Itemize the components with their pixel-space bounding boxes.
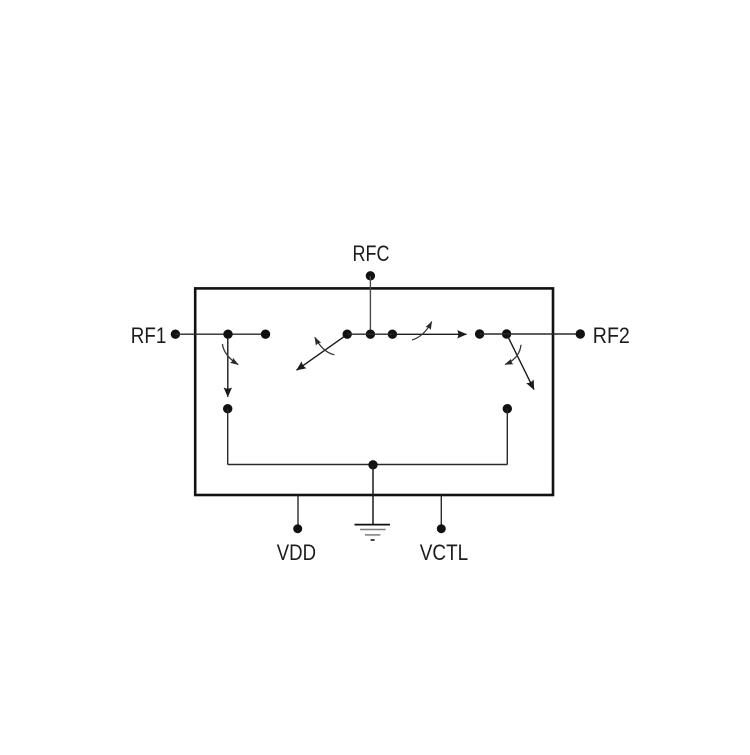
svg-text:RFC: RFC	[353, 241, 390, 266]
center-left switch arm open	[297, 334, 348, 370]
left series contact dot	[261, 330, 270, 339]
ground bus node dot	[368, 460, 377, 469]
wire right junction to RF2	[480, 333, 581, 335]
wire RF1 to left contact	[175, 333, 265, 335]
right contact dot	[475, 329, 484, 338]
wire left shunt to ground bus	[227, 409, 229, 465]
VDD pin wire	[297, 496, 299, 529]
right series switch arm open	[507, 334, 534, 390]
VCTL pin wire	[440, 496, 442, 529]
VCTL pin dot	[437, 524, 446, 533]
svg-text:RF1: RF1	[131, 323, 167, 348]
left shunt switch arm arrow down	[227, 338, 229, 397]
ground symbol	[355, 525, 391, 540]
RF1 terminal dot	[171, 330, 180, 339]
node J2 right junction dot	[502, 329, 511, 338]
ground bus wire	[228, 464, 508, 466]
svg-text:VCTL: VCTL	[420, 540, 468, 565]
wire across RFC junction	[347, 333, 392, 335]
RFC junction node dot	[366, 330, 375, 339]
IC body box	[195, 288, 553, 495]
right shunt node dot	[503, 404, 512, 413]
svg-text:VDD: VDD	[277, 540, 316, 565]
center-right motion arc	[412, 322, 432, 341]
node right of RFC junction	[388, 330, 397, 339]
wire bus to ground symbol	[372, 465, 374, 525]
RFC terminal dot	[366, 271, 375, 280]
svg-text:RF2: RF2	[593, 323, 630, 348]
node left of RFC junction	[343, 330, 352, 339]
left shunt node dot	[223, 404, 232, 413]
node J1 left junction dot	[223, 330, 232, 339]
wire RFC terminal to main line	[369, 276, 371, 334]
RF2 terminal dot	[576, 329, 585, 338]
VDD pin dot	[293, 524, 302, 533]
left shunt motion arc	[222, 344, 238, 365]
center-right switch arm closed arrow	[392, 333, 466, 335]
center-left motion arc	[315, 337, 335, 355]
wire right shunt to ground bus	[506, 409, 508, 465]
right shunt motion arc	[505, 345, 521, 365]
